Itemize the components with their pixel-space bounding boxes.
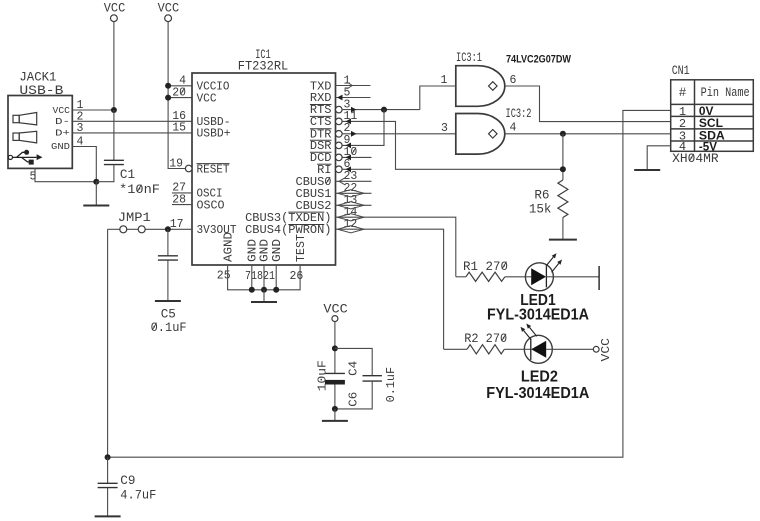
pin DCD bubble (336, 154, 343, 161)
wire R2 to LED2 (504, 348, 524, 350)
USB plug contact (upper trapezoid) (13, 113, 37, 125)
svg-text:USB-B: USB-B (19, 83, 63, 98)
junction C9 tap (105, 454, 111, 460)
capacitor C1 (113, 110, 115, 160)
svg-text:GND: GND (270, 239, 284, 262)
ground (C5) (167, 298, 169, 301)
wire OSCO stub (172, 204, 192, 206)
svg-text:4.7uF: 4.7uF (120, 488, 156, 502)
svg-text:6: 6 (510, 74, 517, 87)
svg-text:C6: C6 (346, 392, 360, 407)
svg-text:D-: D- (55, 116, 70, 127)
junction 3V3OUT/C5 (165, 226, 171, 232)
buffer IC3:2 (456, 114, 505, 155)
wire IC3:1 output to CN1 SCL (505, 86, 671, 122)
LED LED1 (525, 263, 553, 291)
wire VCCIO pin 4 (168, 85, 192, 87)
svg-text:25: 25 (217, 269, 231, 282)
pin CTS wire (342, 121, 563, 169)
svg-text:C9: C9 (120, 474, 135, 488)
ground (C9) (107, 513, 109, 516)
svg-text:VCC: VCC (323, 301, 348, 316)
svg-text:74LVC2G07DW: 74LVC2G07DW (506, 54, 572, 66)
junction VCC pin20 (165, 95, 171, 101)
svg-text:#: # (679, 86, 687, 100)
svg-text:D+: D+ (55, 128, 70, 139)
junction RTS/DSR (381, 107, 387, 113)
pin DTR wire to IC3:2 (342, 133, 456, 135)
wire 3V3OUT net (108, 228, 120, 230)
pin CTS bubble (336, 118, 343, 125)
wire JACK pin3 D+ to USBD+ (72, 132, 192, 134)
pin CBUS4 wire to R2 (336, 229, 444, 349)
wire JACK pin5 shield (35, 168, 96, 181)
svg-text:IC3:2: IC3:2 (506, 106, 532, 121)
svg-text:USBD+: USBD+ (197, 127, 231, 141)
svg-text:TEST: TEST (294, 234, 308, 262)
pin RI stub (342, 168, 371, 170)
wire SDA to R6 (562, 134, 564, 180)
connector CN1 table (671, 80, 754, 152)
wire GND stubs (251, 265, 253, 290)
svg-text:FT232RL: FT232RL (238, 60, 289, 74)
svg-text:15k: 15k (529, 203, 552, 217)
svg-text:19: 19 (169, 157, 183, 170)
svg-text:VCC: VCC (197, 91, 217, 105)
pin DSR bubble (336, 142, 343, 149)
jumper pad 2 (138, 226, 145, 233)
svg-text:1: 1 (441, 74, 448, 87)
ground (CN1 pin4) (646, 169, 648, 171)
wire branch to C6 (335, 348, 372, 375)
resistor R2 (444, 348, 467, 350)
svg-text:15: 15 (172, 122, 186, 135)
svg-text:VCC: VCC (600, 338, 613, 362)
pin RTS wire (342, 109, 420, 111)
svg-text:26: 26 (290, 270, 304, 283)
svg-text:FYL-3014ED1A: FYL-3014ED1A (487, 306, 589, 323)
supply bar terminal (598, 266, 600, 290)
svg-text:3: 3 (441, 122, 448, 135)
IC3:2 open-drain symbol (489, 130, 498, 139)
svg-text:CN1: CN1 (672, 64, 690, 78)
junction CTS/R6 (560, 166, 566, 172)
ground (USB shield) (95, 182, 97, 206)
svg-text:R1 270: R1 270 (463, 260, 508, 274)
svg-text:*10nF: *10nF (119, 183, 160, 197)
capacitor C6 (0.1uF) (363, 375, 382, 377)
op-amp / IC U1 FT232RL body (192, 73, 336, 265)
wire VCC rail to C1/JACK pin1 (113, 22, 115, 110)
svg-text:71821: 71821 (245, 270, 275, 283)
junction VCC/C1 (111, 107, 117, 113)
power symbol VCC (feeds IC1 VCC/VCCIO) (158, 2, 180, 22)
pin CBUS2 stub (336, 204, 372, 206)
ground (R6) (562, 237, 564, 240)
junction C4/C6 bottom (332, 406, 338, 412)
connector JACK1 USB-B box (8, 96, 72, 169)
pin CBUS1 stub (336, 192, 372, 194)
wire 0V rail (left riser, bottom run, right riser to CN1) (108, 110, 671, 457)
power symbol VCC (left, over C1) (104, 2, 126, 22)
power symbol VCC (C4/C6) (323, 301, 348, 321)
junction GND bus (249, 287, 255, 293)
pin RTS bubble (336, 106, 343, 113)
LED1 emission arrows (546, 253, 562, 272)
buffer IC3:1 (456, 66, 505, 107)
resistor R1 (456, 276, 466, 278)
svg-text:VCC: VCC (53, 105, 71, 116)
pin RXD stub (336, 97, 371, 99)
svg-text:10uF: 10uF (315, 360, 329, 391)
wire AGND stub (228, 265, 301, 290)
svg-text:OSCO: OSCO (197, 198, 225, 212)
svg-text:FYL-3014ED1A: FYL-3014ED1A (486, 385, 589, 402)
slashed zero marks (137, 88, 694, 341)
wire VCC rail to VCCIO/VCC/RESET (168, 22, 185, 169)
wire JACK pin2 D- to USBD- (72, 120, 192, 122)
wire VCC to C4/C6 (334, 322, 336, 374)
svg-text:VCC: VCC (104, 2, 126, 16)
svg-text:VCC: VCC (158, 2, 180, 16)
wire IC3:2 output to CN1 SDA (505, 133, 671, 135)
svg-text:LED2: LED2 (521, 369, 558, 386)
svg-text:CBUS4(PWRON): CBUS4(PWRON) (245, 223, 331, 237)
svg-text:4: 4 (510, 121, 517, 134)
wire R1 to LED1 (505, 276, 526, 278)
pin DCD stub (342, 156, 371, 158)
junction GND net (93, 179, 99, 185)
svg-text:C4: C4 (346, 361, 360, 376)
svg-text:Pin Name: Pin Name (701, 86, 750, 100)
svg-text:C5: C5 (161, 307, 176, 321)
LED LED2 (524, 335, 552, 363)
svg-text:RESET: RESET (197, 162, 230, 176)
svg-text:GND: GND (51, 141, 70, 152)
RESET bubble (185, 165, 192, 172)
wire LED2 to VCC pin (552, 348, 593, 350)
wire JACK pin4 GND (72, 147, 96, 182)
wire OSCI stub (172, 192, 192, 194)
wire JACK pin1 VCC (72, 109, 114, 111)
svg-text:JMP1: JMP1 (118, 211, 151, 225)
wire VCC pin 20 (168, 97, 192, 99)
pin CBUS0 stub (336, 180, 372, 182)
ground (IC1) (263, 290, 265, 302)
capacitor C5 (167, 229, 169, 256)
USB trident icon (8, 150, 42, 165)
capacitor C4 (polarized 10uF) (325, 372, 345, 374)
junction C4/C6 top (332, 345, 338, 351)
svg-text:R2 270: R2 270 (464, 332, 507, 346)
VCC pin circle (593, 346, 599, 352)
capacitor C9 (107, 457, 109, 483)
svg-text:0.1uF: 0.1uF (384, 367, 398, 403)
pin TXD stub (336, 85, 371, 87)
resistor R6 (558, 180, 568, 218)
svg-text:C1: C1 (120, 168, 135, 182)
USB plug contact (lower trapezoid) (13, 131, 37, 143)
svg-text:R6: R6 (534, 188, 549, 202)
pin DSR wire (342, 110, 384, 146)
pin RI bubble (336, 166, 343, 173)
wire LED1 to supply bar (553, 276, 599, 278)
svg-text:-5V: -5V (699, 139, 717, 153)
pin CBUS3 wire to R1 (336, 217, 456, 277)
svg-text:XH04MR: XH04MR (672, 152, 719, 166)
LED2 emission arrows (521, 324, 537, 340)
jumper pad 1 (120, 226, 127, 233)
svg-text:AGND: AGND (221, 232, 235, 262)
junction SDA/R6 (560, 131, 566, 137)
wire CN1 pin4 -5V to ground (647, 146, 671, 170)
junction VCCIO (165, 83, 171, 89)
IC3:1 open-drain symbol (489, 82, 498, 91)
svg-text:IC3:1: IC3:1 (456, 50, 482, 65)
wire RTS to IC3:1 input (420, 86, 456, 110)
pin DTR bubble (336, 131, 343, 138)
ground (C4/C6) (334, 409, 336, 421)
